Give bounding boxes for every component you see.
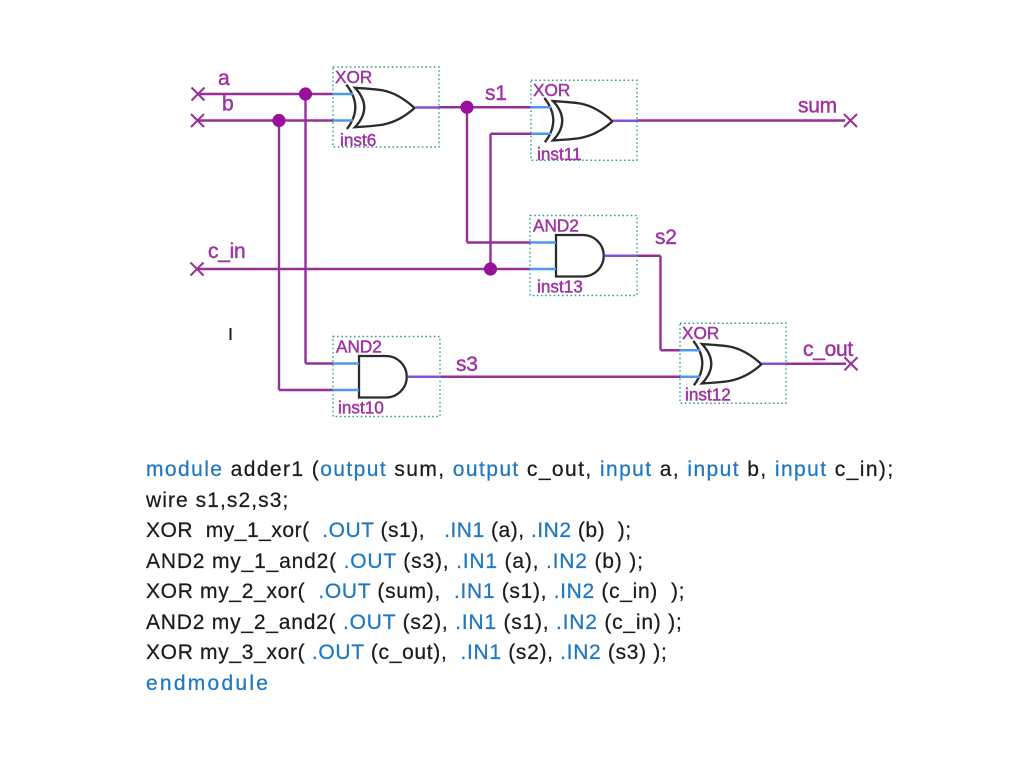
output pin c_out (845, 357, 858, 370)
wire net c_in vertical branch (491, 134, 532, 269)
input pin c_in (191, 263, 204, 276)
junction node a (299, 87, 312, 100)
XOR gate inst11 (531, 80, 637, 160)
XOR gate inst12 (680, 323, 786, 403)
wire net a horizontal (198, 93, 333, 95)
input pin b (191, 114, 204, 127)
svg-text:XOR: XOR (533, 80, 570, 100)
svg-text:c_out: c_out (803, 338, 853, 361)
label s1 (485, 82, 507, 105)
svg-text:c_in: c_in (208, 240, 245, 263)
svg-text:inst10: inst10 (338, 398, 384, 418)
wire net s3 (440, 376, 680, 378)
svg-text:inst11: inst11 (537, 144, 582, 164)
Verilog code block (146, 455, 895, 699)
XOR gate inst6 (333, 67, 439, 147)
label s3 (456, 353, 478, 376)
wire net c_in horizontal (197, 268, 530, 270)
input pin a (192, 88, 205, 101)
label c_in (208, 240, 245, 263)
output pin sum (844, 114, 857, 127)
svg-text:inst13: inst13 (537, 277, 583, 297)
AND gate inst13 (530, 216, 637, 296)
svg-text:a: a (218, 67, 230, 90)
svg-text:s1: s1 (485, 82, 507, 105)
junction node c_in (484, 262, 497, 275)
svg-text:XOR: XOR (682, 323, 719, 343)
svg-text:inst12: inst12 (685, 385, 731, 405)
wire net sum (637, 119, 845, 121)
svg-text:inst6: inst6 (340, 130, 376, 150)
svg-text:b: b (222, 93, 233, 116)
junction node b (272, 114, 285, 127)
svg-text:XOR: XOR (335, 67, 372, 87)
label XOR inst6 (335, 67, 376, 150)
AND gate inst10 (333, 337, 440, 417)
svg-text:s2: s2 (655, 226, 677, 249)
label b (222, 93, 233, 116)
wire net b vertical branch (279, 121, 333, 391)
wire net s1 horizontal (439, 106, 531, 108)
wire net s2 (637, 256, 680, 351)
label sum (798, 95, 837, 118)
wire net s1 vertical branch (467, 107, 530, 242)
svg-text:AND2: AND2 (533, 216, 579, 236)
label c_out (803, 338, 853, 361)
wire net b horizontal (198, 119, 334, 121)
label a (218, 67, 230, 90)
label XOR inst11 (533, 80, 582, 164)
text cursor mark (230, 328, 232, 340)
label AND2 inst10 (336, 337, 384, 418)
junction node s1 (460, 101, 473, 114)
label s2 (655, 226, 677, 249)
wire net a vertical branch (306, 94, 334, 364)
label XOR inst12 (682, 323, 731, 405)
svg-text:sum: sum (798, 95, 837, 118)
label AND2 inst13 (533, 216, 583, 297)
wire net c_out (786, 363, 846, 365)
svg-text:s3: s3 (456, 353, 478, 376)
svg-text:AND2: AND2 (336, 337, 382, 357)
